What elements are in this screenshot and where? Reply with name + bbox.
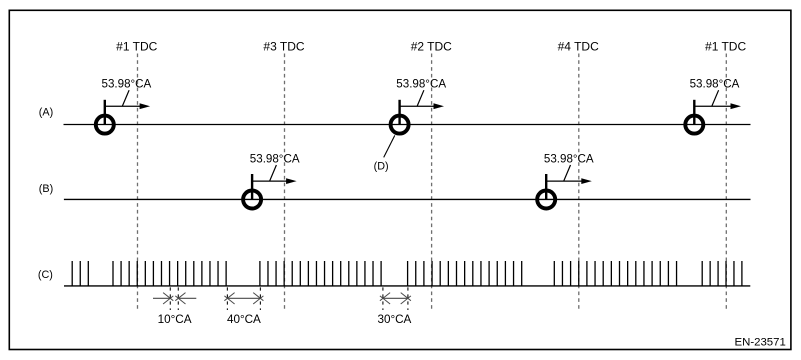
svg-text:(C): (C) xyxy=(38,269,53,281)
svg-text:#1 TDC: #1 TDC xyxy=(116,40,157,54)
svg-text:53.98°CA: 53.98°CA xyxy=(544,152,594,165)
svg-text:40°CA: 40°CA xyxy=(227,313,261,326)
svg-text:(D): (D) xyxy=(374,160,389,172)
svg-text:(B): (B) xyxy=(39,183,53,195)
svg-text:53.98°CA: 53.98°CA xyxy=(396,78,446,91)
svg-text:#1 TDC: #1 TDC xyxy=(705,40,746,54)
svg-text:EN-23571: EN-23571 xyxy=(735,337,786,349)
svg-text:53.98°CA: 53.98°CA xyxy=(102,78,152,91)
svg-text:(A): (A) xyxy=(39,107,53,119)
svg-text:10°CA: 10°CA xyxy=(158,313,192,326)
svg-text:#3 TDC: #3 TDC xyxy=(263,40,304,54)
svg-text:53.98°CA: 53.98°CA xyxy=(250,152,300,165)
svg-text:#4 TDC: #4 TDC xyxy=(558,40,599,54)
svg-text:53.98°CA: 53.98°CA xyxy=(690,78,740,91)
svg-text:#2 TDC: #2 TDC xyxy=(411,40,452,54)
svg-text:30°CA: 30°CA xyxy=(377,313,411,326)
